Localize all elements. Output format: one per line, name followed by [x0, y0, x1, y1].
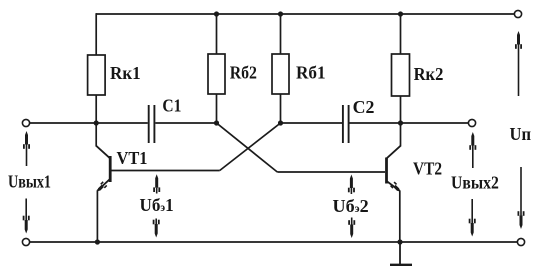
- wire cross-coupling C1 node to VT2 base (diagonal): [217, 123, 278, 172]
- transistor VT2 base bar: [385, 158, 388, 184]
- wire Rб2 top lead: [216, 14, 218, 54]
- svg-text:Rк2: Rк2: [414, 64, 444, 84]
- arrow Uвых1 down (left): [23, 199, 30, 234]
- resistor Rк1 body: [88, 55, 106, 95]
- terminal output Uвых1 (left mid): [22, 119, 29, 126]
- junction VT1 emitter / bottom rail: [95, 239, 100, 244]
- resistor Rб1 body: [272, 54, 289, 94]
- arrow Uбэ2 up: [348, 175, 355, 195]
- svg-text:Uп: Uп: [510, 124, 532, 144]
- terminal -Uп (right bottom): [517, 238, 524, 245]
- wire VT2 collector diagonal: [386, 146, 400, 159]
- wire Rб2 bottom lead: [216, 94, 218, 123]
- arrow Uп up (top right): [515, 31, 522, 96]
- transistor VT1 base bar: [109, 156, 112, 182]
- resistor Rб2 body: [208, 54, 225, 94]
- arrow Uвых2 up (right): [469, 132, 476, 168]
- arrow Uп down (right): [518, 167, 525, 229]
- svg-text:Uвых1: Uвых1: [8, 172, 51, 192]
- wire VT1 emitter to bottom rail: [96, 190, 98, 242]
- wire C2 to right terminal: [350, 122, 469, 124]
- wire bottom rail: [30, 241, 518, 243]
- wire VT1 collector vertical: [95, 123, 97, 147]
- wire Rб1 node to C2: [281, 122, 343, 124]
- svg-text:Rб1: Rб1: [296, 63, 326, 83]
- wire Rк1 top lead: [95, 13, 97, 55]
- terminal common (left bottom): [22, 238, 29, 245]
- svg-text:Rк1: Rк1: [110, 63, 141, 83]
- resistor Rк2 body: [392, 54, 410, 96]
- wire VT2 emitter to bottom rail: [399, 191, 401, 243]
- junction VT2 emitter / ground / bottom rail: [397, 239, 402, 244]
- wire Rб1 top lead: [280, 14, 282, 54]
- arrow Uвых1 up (left): [23, 131, 30, 166]
- svg-text:Uбэ2: Uбэ2: [333, 196, 369, 216]
- capacitor C2 plates: [343, 105, 349, 143]
- wire VT2 base horizontal: [277, 171, 385, 173]
- svg-text:Rб2: Rб2: [230, 63, 257, 83]
- wire Rк2 bottom lead: [400, 96, 402, 123]
- junction VT2 collector / Rк2 / C2: [398, 120, 403, 125]
- svg-text:C2: C2: [353, 97, 375, 117]
- wire VT1 collector diagonal: [96, 146, 110, 159]
- arrow Uбэ1 down: [153, 219, 160, 238]
- terminal output Uвых2 (right mid): [468, 119, 475, 126]
- junction top rail / Rк2: [398, 11, 403, 16]
- arrow Uбэ1 up: [153, 174, 160, 193]
- wire Rк1 bottom lead: [95, 95, 97, 123]
- arrow Uвых2 down (right): [469, 199, 476, 237]
- wire Rк2 top lead: [400, 14, 402, 54]
- wire VT1 base horizontal: [111, 170, 220, 172]
- terminal +Uп (top right): [514, 10, 521, 17]
- svg-text:VT1: VT1: [117, 148, 148, 168]
- junction top rail / Rб2: [214, 11, 219, 16]
- junction top rail / Rб1: [278, 11, 283, 16]
- wire C1 to Rб2 node: [155, 122, 216, 124]
- svg-text:Uвых2: Uвых2: [451, 173, 499, 193]
- wire VT2 collector vertical: [400, 123, 402, 147]
- transistor VT1 emitter with arrow: [95, 179, 110, 194]
- junction VT1 collector / Rк1 / C1: [94, 120, 99, 125]
- wire Rб1 bottom lead: [280, 94, 282, 123]
- arrow Uбэ2 down: [348, 218, 355, 239]
- svg-text:Uбэ1: Uбэ1: [140, 195, 174, 215]
- wire cross-coupling C2 node to VT1 base (diagonal): [220, 123, 281, 171]
- junction node C2/Rб1 (to VT1 base): [278, 120, 283, 125]
- ground symbol: [390, 242, 412, 265]
- junction node C1/Rб2 (to VT2 base): [214, 120, 219, 125]
- svg-text:C1: C1: [162, 96, 181, 116]
- svg-text:VT2: VT2: [413, 159, 442, 179]
- wire top supply rail: [96, 13, 515, 15]
- capacitor C1 plates: [149, 105, 155, 143]
- transistor VT2 emitter with arrow: [387, 181, 403, 194]
- wire left terminal to C1: [30, 122, 148, 124]
